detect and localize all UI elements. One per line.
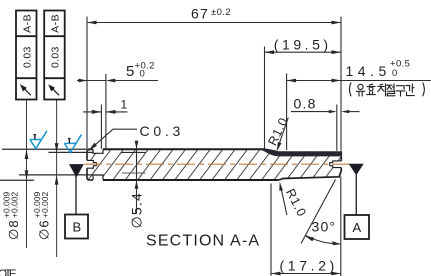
dimension 5 +0.2/0 (77, 74, 158, 149)
svg-text:C0.3: C0.3 (140, 123, 182, 139)
dimension 1 (83, 105, 128, 149)
svg-text:SECTION A-A: SECTION A-A (146, 233, 259, 250)
surface finish symbol 1 (cyan) (30, 131, 47, 149)
datum A (triangle + box) (355, 175, 357, 216)
svg-text:(19.5): (19.5) (274, 37, 330, 53)
dimension (19.5) (265, 47, 342, 149)
dimension Ø5.4 with feature lines (121, 151, 146, 153)
centerline (84, 163, 351, 165)
svg-text:14.5: 14.5 (346, 63, 388, 79)
svg-text:0.8: 0.8 (294, 96, 317, 112)
svg-text:∅8: ∅8 (6, 219, 21, 240)
datum B (triangle + box) (75, 175, 77, 215)
feature control frame 2 (runout 0.03 A-B) (44, 11, 64, 100)
extension lines left of part (0, 149, 93, 180)
svg-text:A: A (353, 220, 362, 235)
svg-text:A-B: A-B (21, 14, 33, 33)
svg-text:0: 0 (392, 68, 398, 79)
svg-text:+0.002: +0.002 (40, 191, 50, 218)
dimension (17.2) (271, 177, 341, 276)
dimension 0.8 (291, 105, 360, 151)
svg-text:67: 67 (191, 6, 209, 22)
worm thread band (right section top) (262, 148, 342, 156)
dimension Ø6 +0.009/+0.002 (rotated) (56, 100, 58, 258)
svg-text:±0.2: ±0.2 (211, 7, 231, 18)
svg-text:0.03: 0.03 (21, 46, 33, 68)
svg-text:∅5.4: ∅5.4 (129, 192, 145, 228)
dimension 67±0.2 (87, 17, 341, 151)
leader R1.0 (bottom fillet) (281, 186, 287, 215)
svg-text:+0.002: +0.002 (10, 191, 20, 218)
svg-text:0.03: 0.03 (50, 46, 62, 68)
chamfer note C0.3 with leader (89, 129, 137, 150)
leader R1.0 (top fillet) (277, 118, 288, 150)
svg-text:(17.2): (17.2) (280, 257, 336, 273)
svg-text:0: 0 (140, 69, 146, 80)
svg-text:30°: 30° (312, 219, 337, 235)
svg-text:B: B (73, 220, 82, 235)
dimension Ø8 +0.009/+0.002 (rotated) (26, 100, 28, 249)
surface finish symbol 2 (cyan) (64, 135, 81, 153)
part outline (87, 149, 341, 180)
30° angle construction (301, 180, 336, 244)
korean note (유효치절구간) hand-drawn glyphs (349, 83, 424, 96)
svg-text:NOTE: NOTE (0, 269, 17, 276)
feature control frame 1 (runout 0.03 A-B) (16, 11, 37, 100)
hatched section body (80, 143, 348, 187)
svg-text:A-B: A-B (50, 14, 62, 33)
dimension 14.5 +0.5/0 with korean note (287, 74, 431, 151)
svg-text:1: 1 (121, 97, 128, 111)
svg-text:∅6: ∅6 (37, 219, 52, 240)
